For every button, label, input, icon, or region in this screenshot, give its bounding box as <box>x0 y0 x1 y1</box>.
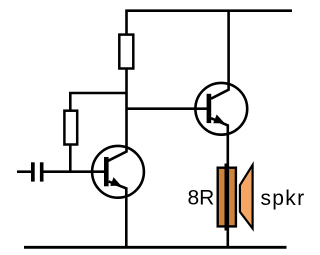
wire: R1 bottom down to Q1 collector diagonal <box>108 69 127 161</box>
wire: bottom ground rail <box>24 246 287 249</box>
transistor Q2 circle <box>195 83 247 135</box>
wire: capacitor to Q1 base (node A with R2) <box>44 170 105 173</box>
wire: Q1 collector node to Q2 base <box>127 107 208 110</box>
capacitor C1 plate 1 <box>31 162 35 181</box>
wire: R2 bottom down to Q1 base node <box>69 145 72 172</box>
transistor Q1 circle <box>92 146 144 198</box>
wire: branch left to R2 top <box>70 93 126 111</box>
speaker LS1 magnet box <box>218 168 236 227</box>
transistor Q2 base bar <box>207 94 212 123</box>
resistor R1 <box>119 35 133 69</box>
wire: capacitor input stub <box>17 170 31 173</box>
transistor Q2 emitter with arrow down to speaker <box>211 118 228 164</box>
resistor R2 <box>64 111 77 145</box>
speaker cone <box>240 165 253 229</box>
wire: speaker bottom to ground rail <box>227 230 230 246</box>
speaker coil bar <box>225 164 230 231</box>
transistor Q2 collector up to top rail <box>211 11 229 99</box>
transistor Q1 base bar <box>104 157 109 186</box>
capacitor C1 plate 2 <box>40 162 44 181</box>
transistor Q1 emitter with arrow <box>109 181 127 246</box>
svg-text:8R: 8R <box>188 187 215 210</box>
wire: top supply rail with corner down to R1 top <box>127 11 293 34</box>
svg-text:spkr: spkr <box>261 187 306 210</box>
